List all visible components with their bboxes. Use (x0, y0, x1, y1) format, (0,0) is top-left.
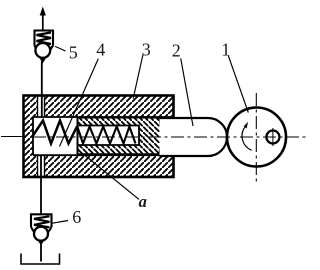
rod / plunger end (2) with domed cap (160, 118, 228, 156)
valve 5: seat funnel (35, 46, 54, 62)
valve 6: body rect (31, 214, 52, 227)
piston 2 body (hatched, with spring slot) (78, 118, 161, 155)
spring 4 (chamber part, large zigzag) (33, 121, 77, 144)
leader line 5 (55, 46, 65, 51)
leader line 4 (60, 59, 99, 147)
pipe valve6 to tank (40, 244, 42, 262)
svg-text:5: 5 (69, 43, 78, 63)
svg-text:3: 3 (142, 40, 151, 60)
axle vertical tick (272, 128, 274, 146)
svg-text:1: 1 (221, 40, 230, 60)
leader line a (77, 149, 139, 199)
svg-text:2: 2 (172, 41, 181, 61)
centerline horizontal main (1, 136, 24, 138)
valve 5: outlet arrow (42, 13, 44, 31)
svg-text:a: a (139, 192, 147, 211)
housing 3 (hatched body with cavity and two channels) (24, 96, 174, 178)
rotation arrow arc (242, 127, 252, 150)
svg-text:6: 6 (72, 207, 81, 227)
valve 5: ball (35, 43, 50, 58)
valve 6: ball (34, 227, 48, 241)
valve 6: seat funnel (31, 227, 52, 244)
leader line 3 (133, 55, 143, 99)
vertical centerline of roller (255, 93, 257, 182)
leader line 1 (228, 56, 248, 113)
roller 1 (large circle) (227, 108, 286, 167)
leader line 6 (52, 221, 68, 224)
tank (21, 254, 60, 265)
leader line 2 (181, 58, 193, 126)
roller axle (small circle) (266, 131, 279, 144)
valve 5: body rect (35, 31, 54, 46)
pipe valve5 to housing (41, 62, 43, 118)
svg-text:4: 4 (96, 39, 105, 59)
pipe housing to valve 6 (40, 155, 42, 214)
valve 5: spring (37, 33, 52, 45)
spring 4 (slot part, small zigzag) (78, 127, 136, 144)
valve 6: spring (34, 216, 50, 227)
